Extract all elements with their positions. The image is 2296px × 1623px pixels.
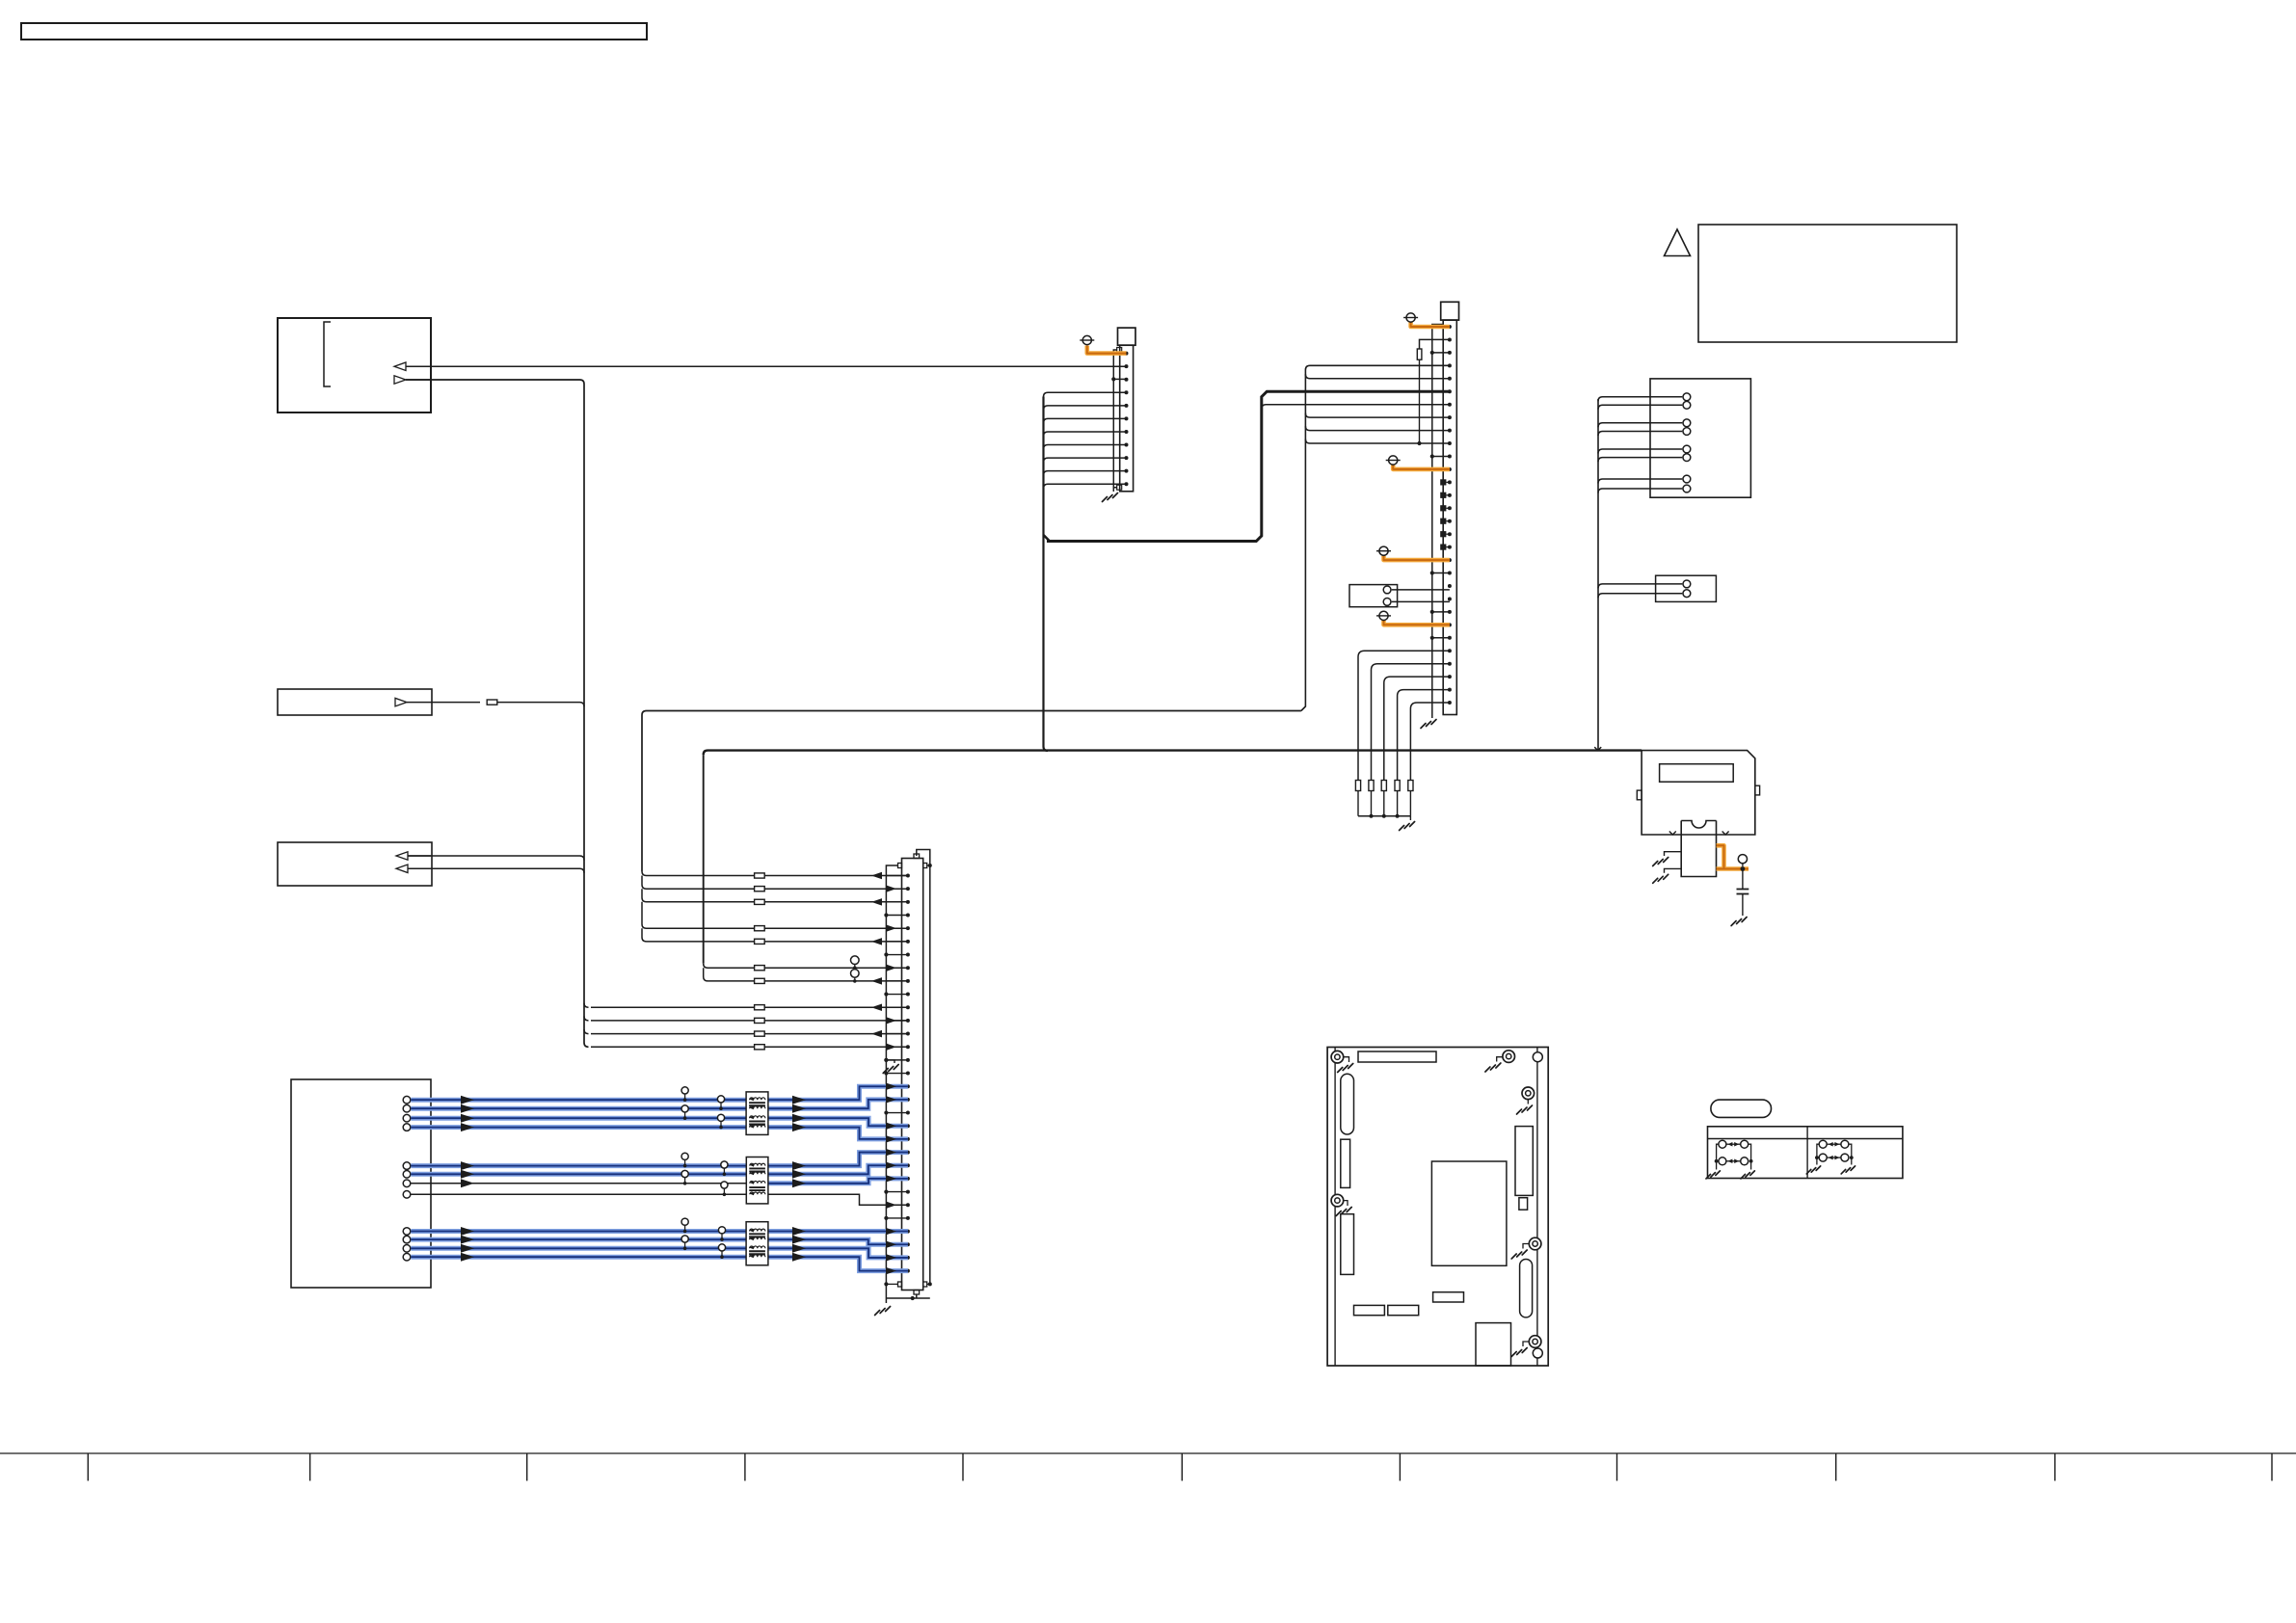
test points group1 [681,1087,688,1094]
PCB eyelet right-mid [1529,1237,1541,1250]
orange wire CN2 pin12 [1393,466,1450,469]
ground below capacitor C1 [1731,918,1747,926]
transformer T3 [746,1222,768,1265]
wire W729 branch k8 [704,968,908,981]
wire CN1 pin3 stub [1113,378,1126,380]
connector CN1 top square [1118,328,1136,345]
component box CB1 (2-circle box near CN2) [1349,585,1398,607]
black wire G2-3 (input side) [411,1183,746,1184]
ground at termination bus [1409,816,1411,820]
CN1 bundle lines to bus A [1044,392,1127,397]
bus W606 branch to CN pin k10 [584,1003,589,1008]
PCB right small rect below [1519,1198,1528,1211]
SC4 terminal circles group2 [403,1162,411,1170]
connector CN3 right top tab [923,864,927,868]
CN2 termination wires (5) to resistors [1358,651,1450,780]
blue wire G1-4 [411,1128,908,1139]
wire W729 vertical from Y779 bus [703,755,705,964]
wire SC2 to bus (after bead) [498,703,585,707]
PCB eyelet mid-left [1331,1194,1344,1207]
block box SP1 (right, 8 terminals) [1650,379,1750,497]
note triangle [1665,229,1691,256]
wire W729 branch k7 [704,964,908,969]
orange wire at jack output [1717,845,1749,868]
output arrows group3 [792,1227,806,1236]
table header line [1708,1138,1903,1140]
resistor R1 lower lead [1419,359,1421,443]
CN2 fan branch pin10 [1305,439,1450,444]
block box SP2 (right, 2 terminals) [1656,575,1717,601]
CN2 fan branch pin5 [1305,374,1450,379]
junction dot on orange wire [1741,866,1746,871]
block box SC3 [278,842,432,886]
orange wire at CN1 pin1 [1087,346,1127,354]
table cell1 diagram [1719,1140,1726,1148]
input arrows group1 [461,1096,474,1104]
junction R1 lead to pin10 line [1417,441,1421,445]
connector CN2 pins [1448,325,1452,329]
wire W666 branch k2 [642,889,908,902]
wire SC1 out down bus [406,380,589,1047]
connector CN1 body [1120,345,1134,492]
input arrows group3 [461,1227,474,1236]
CN2 fan branch pin9 [1305,426,1450,431]
PCB bottom connector rect [1476,1323,1511,1366]
table divider [1806,1127,1808,1179]
capacitor C1 to ground [1742,869,1744,890]
connector CN3 bottom left tab [898,1282,902,1287]
blue wire G2-1 [411,1153,908,1166]
wire W606 branch k10 line [591,1006,908,1008]
junction vee on Y779 at right bus [1594,747,1601,751]
connector CN3 bottom tab [914,1290,920,1295]
thin wire to CN2 pin7 [1262,405,1450,410]
bus Y779 horizontal [704,751,1642,756]
PCB right capsule [1520,1260,1533,1317]
orange wire CN2 pin19 [1384,556,1450,560]
CN2 pin11 stub from bus [1430,454,1434,458]
wire W606 branch k12 line [591,1033,908,1035]
blue wire G2-2 [411,1165,908,1174]
CN2 pin3 stub from bus [1430,351,1434,355]
PCB eyelet top-right [1503,1051,1515,1063]
PCB hole top-right [1533,1052,1542,1062]
wire CB1 pin1 to CN2 pin21 [1392,589,1450,591]
PCB small rect bottom-left2 [1388,1305,1419,1315]
wire W666 branch k0 [642,871,908,876]
connector CN3 bottom right tab [923,1282,927,1287]
title box (empty) [21,23,647,40]
transformer T2 [746,1157,768,1204]
PCB inner left edge [1334,1048,1336,1367]
connector CN3 top tab [914,854,920,859]
connector CN1 ground bus wire [1113,350,1116,488]
blue wire G1-3 [411,1118,908,1126]
bus W606 branch to CN pin k12 [584,1029,589,1034]
module M1 outline [1642,751,1755,835]
bracket inside SC1 [324,322,331,386]
connection point at CN2 pin1 [1406,313,1415,322]
test point circle on k7 line [851,956,860,965]
PCB left rect slot [1341,1139,1350,1187]
module M1 left tab [1637,790,1642,800]
wire CN3 right tab to outer [927,865,930,866]
junction vee right of jack [1722,832,1729,836]
termination resistors R2-R6 [1355,781,1360,791]
ruler ticks [87,1453,89,1481]
table outline [1708,1127,1903,1179]
SC4 terminal circles group3 [403,1228,411,1236]
ground at CN3 bus bottom [875,1307,891,1316]
PCB left capsule slot [1341,1074,1354,1134]
jack J1 ground stub 1 [1665,852,1682,856]
PCB top slot [1358,1051,1436,1062]
test points group2 [681,1153,688,1159]
wires SP2 to right bus [1598,584,1682,589]
bead on SC2 wire [487,700,497,705]
bus A thick branch right to CN2 [1047,391,1450,541]
jack J1 ground stub 2 [1665,868,1682,872]
SP2 circle pin1 [1683,580,1691,588]
orange wire CN2 pin24 [1384,621,1450,625]
blue wire G3-2 [411,1239,908,1244]
black wire G2-4 [411,1194,908,1205]
connector CN1 pins [1125,352,1129,356]
ground stub on CN3 bus [886,1060,894,1063]
table cell2 diagram [1819,1140,1827,1148]
connection point at CN2 pin12 [1389,456,1398,465]
wire SC2 to bus [407,702,480,704]
SP2 circle pin2 [1683,590,1691,598]
CB1 circle pin2 [1383,599,1391,606]
blue wire G2-3 (output side) [768,1179,908,1184]
module M1 right tab [1755,785,1760,795]
CN2 keying marks (6 squares) [1440,479,1446,485]
PCB big IC rect [1431,1161,1507,1265]
orange wire CN2 pin1 [1411,323,1450,328]
block box SC1 (top-left unit) [278,318,431,412]
blue wire G3-1 [411,1229,908,1234]
CN3 pin arrows for blue wires [886,1082,896,1090]
wire SC3 line2 to bus [408,868,584,873]
arrow into SC1 (signal in) [406,365,431,367]
blue wire G3-3 [411,1248,908,1258]
test point circle above orange [1738,855,1747,864]
CN2 fan vertical [1301,365,1450,710]
CN2 pin20 stub from bus [1430,571,1434,574]
label pill [1711,1100,1772,1117]
wire CN3 left tab to ground bus [886,865,897,1303]
ground at CN1 bus [1112,488,1114,492]
connector CN3 left top tab [898,864,902,868]
connector CN2 body [1443,320,1456,714]
blue wire G1-2 [411,1100,908,1108]
block box SC2 [278,689,432,715]
output arrows group1 [792,1096,806,1104]
CN2 pin25 stub from bus [1430,636,1434,640]
input arrows group2 [461,1161,474,1170]
wire SC3 line1 to bus [408,856,584,861]
connector CN1 left tab bottom [1117,485,1122,490]
CN2 fan branch pin8 [1305,413,1450,418]
ruler line [0,1452,2296,1454]
blue wire G1-1 [411,1086,908,1100]
transformer T1 [746,1092,768,1135]
blue wire G3-4 [411,1257,908,1270]
PCB left tall rect [1341,1214,1354,1275]
wire CN3 bottom-left tab to bus [886,1283,897,1285]
connector CN3 pin stubs [886,875,908,877]
bus A vertical [1044,397,1049,752]
wire SC1 to CN1 pin2 [406,365,1127,367]
SP1 terminal circles [1683,393,1691,401]
arrow out of SC1 (signal out) [406,379,431,381]
wire CN3 bottom tab to ground bus [886,1294,929,1298]
connector CN3 body [902,859,923,1290]
right bus vertical W1658 [1597,399,1599,751]
PCB board outline [1327,1048,1548,1367]
arrow into SC3 (line2) [408,867,431,869]
connection point symbol at CN1 pin1 [1082,335,1091,344]
bus A merge mark [1044,535,1051,542]
wire W606 branch k11 line [591,1020,908,1022]
wire W666 branch k1 [642,876,908,890]
wire Y737 horizontal (CN2 fan to W666) [647,710,1301,712]
output arrows group2 [792,1161,806,1170]
wire W606 branch k13 line [591,1046,908,1048]
wires SP1 to right bus [1598,397,1682,402]
wire CN3 bottom-right tab to outer [927,1283,930,1285]
arrow out of SC2 [395,698,407,706]
resistor R1 on CN2 pin2 [1417,349,1422,359]
connection point at CN2 pin19 [1379,546,1388,555]
test point circle on k8 line [851,970,860,978]
note box (empty) [1698,225,1957,342]
CN3 pin arrow for black wire [886,1202,896,1210]
CB1 circle pin1 [1383,586,1391,594]
junction CN1 pin3 to bus [1111,377,1115,381]
connector CN1 left tab top [1117,348,1122,353]
SC4 terminal circles group1 [403,1096,411,1104]
junction vee left of jack [1669,832,1676,836]
termination ground bus [1358,815,1410,817]
bus W606 branch to CN pin k11 [584,1016,589,1021]
connection point at CN2 pin24 [1379,611,1388,620]
PCB inner right edge [1536,1048,1538,1367]
PCB small rect bottom-left1 [1354,1305,1385,1315]
ground at CN2 bus [1421,720,1436,729]
PCB eyelet top-left [1331,1051,1344,1063]
wire CB1 pin2 to CN2 pin22 [1392,600,1450,602]
PCB eyelet bottom-right [1529,1336,1541,1348]
wire CN2 pin2 to resistor [1420,339,1450,349]
wire W666 vertical [642,711,647,872]
test points group3 [681,1218,688,1225]
CN2 pin23 stub from bus [1430,610,1434,614]
module M1 inner window [1660,764,1734,783]
connector CN2 ground bus wire [1432,325,1443,719]
block box SC4 (signal source, bottom-left) [291,1079,431,1288]
PCB hole bottom-right [1533,1348,1542,1358]
PCB right tall rect [1515,1127,1533,1196]
connector CN3 outer link wire [917,850,930,1285]
wire W666 branch k5 [642,928,908,942]
arrow into SC3 (line1) [408,855,431,857]
PCB small rect center-bottom [1433,1292,1464,1302]
jack J1 body [1681,821,1716,877]
wire W666 branch k4 [642,902,908,928]
PCB eyelet right-upper [1522,1087,1535,1100]
connector CN2 top square [1441,302,1459,320]
